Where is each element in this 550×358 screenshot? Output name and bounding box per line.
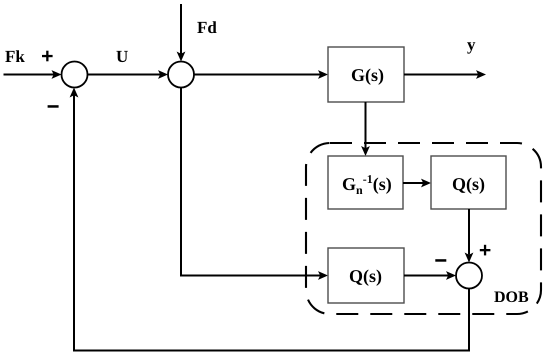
label + (plus at summing junction S1)	[42, 51, 53, 62]
wire lower Q(s) to S3	[404, 271, 456, 280]
block Q(s) upper	[431, 156, 506, 209]
wire Fk input arrow	[4, 70, 62, 79]
wire feedback S3 down, across bottom, up into S1	[70, 88, 469, 351]
summing junction S3	[456, 263, 482, 289]
svg-text:Q(s): Q(s)	[452, 174, 485, 194]
block G(s)	[328, 47, 404, 102]
summing junction S1	[62, 62, 88, 88]
label - (minus at summing junction S1)	[48, 105, 59, 108]
wire G(s) down to Gn-1(s)	[361, 102, 370, 156]
svg-text:Fd: Fd	[197, 18, 217, 37]
wire branch from S2 down then right to lower Q(s)	[181, 88, 328, 280]
svg-text:U: U	[116, 47, 128, 66]
wire upper Q(s) down to S3	[465, 209, 474, 263]
svg-text:G(s): G(s)	[351, 65, 384, 85]
svg-text:Fk: Fk	[5, 47, 25, 66]
label - (minus at summing junction S3)	[435, 259, 446, 262]
block Gn^-1(s)	[328, 156, 403, 209]
wire S2 to G(s)	[194, 70, 328, 79]
wire Gn-1(s) to upper Q(s)	[403, 179, 431, 188]
wire Fd input arrow	[177, 4, 186, 62]
wire output y	[404, 70, 486, 79]
dashed DOB boundary	[306, 143, 541, 314]
summing junction S2	[168, 62, 194, 88]
block Q(s) lower	[328, 248, 404, 303]
svg-text:Q(s): Q(s)	[349, 266, 382, 286]
svg-text:DOB: DOB	[494, 289, 529, 306]
wire S1 to S2	[88, 70, 169, 79]
svg-text:y: y	[467, 35, 476, 54]
label + (plus at summing junction S3)	[480, 245, 491, 256]
